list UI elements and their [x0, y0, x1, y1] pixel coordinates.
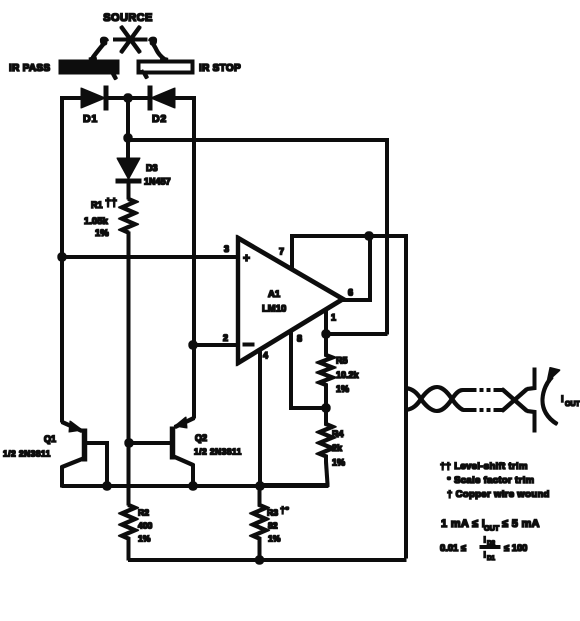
label IR PASS	[9, 63, 50, 74]
svg-text:I: I	[484, 535, 486, 545]
svg-text:82: 82	[268, 521, 278, 531]
resistor R2	[122, 505, 135, 560]
svg-text:R2: R2	[138, 508, 149, 518]
node B junction to feedback	[124, 134, 132, 142]
svg-text:1N457: 1N457	[144, 177, 171, 187]
svg-text:1/2 2N3811: 1/2 2N3811	[3, 449, 51, 459]
node pin1 R5	[322, 330, 330, 338]
svg-text:1%: 1%	[138, 534, 151, 544]
svg-text:OUT: OUT	[565, 401, 580, 408]
svg-text:0.01 ≤: 0.01 ≤	[440, 542, 466, 553]
resistor R5	[320, 334, 333, 408]
label R3	[267, 505, 289, 544]
pin 3 label	[224, 244, 229, 254]
svg-text:1%: 1%	[268, 534, 281, 544]
svg-text:† Copper wire wound: † Copper wire wound	[447, 489, 550, 500]
label D2	[152, 113, 167, 125]
wire D2 to right rail	[175, 98, 194, 418]
output port upper	[527, 368, 535, 389]
label R1 daggers	[84, 197, 117, 239]
svg-text:1: 1	[331, 313, 336, 323]
transistor Q1	[62, 421, 107, 487]
twisted pair dashed section	[463, 390, 502, 410]
node output-supply junction	[365, 232, 373, 240]
light ray to IR STOP	[150, 39, 168, 60]
svg-text:1%: 1%	[336, 384, 349, 394]
label IR STOP	[199, 63, 241, 74]
note copper wire wound	[447, 489, 550, 500]
note ratio range	[440, 535, 527, 563]
photodiode D2	[150, 86, 175, 110]
photodiode D1	[81, 86, 106, 110]
svg-text:LM10: LM10	[262, 304, 286, 315]
wire inverting input	[193, 344, 238, 347]
node Q2 collector rail	[189, 482, 197, 490]
pin 7 wire	[292, 236, 406, 558]
wire left rail top to D1	[62, 98, 81, 258]
svg-text:1 mA ≤ I: 1 mA ≤ I	[441, 518, 485, 530]
svg-text:+: +	[243, 251, 250, 265]
twisted pair end crossing	[502, 389, 527, 411]
pin 1 wire	[325, 309, 328, 334]
Iout arrow	[542, 368, 560, 425]
light tick on D1	[111, 70, 116, 79]
label Q2	[194, 433, 242, 457]
svg-text:1%: 1%	[95, 228, 109, 239]
svg-text:D2: D2	[152, 113, 167, 125]
output port lower	[527, 411, 535, 432]
pin 2 label	[223, 333, 228, 343]
light ray to IR PASS	[90, 39, 108, 60]
node left rail to pin3	[58, 253, 66, 261]
svg-text:†°: †°	[280, 505, 289, 516]
svg-text:D1: D1	[487, 555, 495, 562]
wire D1 to node A	[106, 97, 150, 100]
svg-text:OUT: OUT	[484, 524, 500, 533]
lamp/source star	[114, 27, 148, 53]
label R4	[332, 429, 345, 468]
label R2	[138, 508, 153, 544]
svg-text:Q1: Q1	[44, 434, 56, 444]
node Q2 base R1 R2	[125, 439, 133, 447]
wire Q2 base node down through rail	[127, 443, 130, 505]
svg-text:3: 3	[224, 244, 229, 254]
light tick on D2	[142, 69, 147, 78]
svg-text:1/2 2N3811: 1/2 2N3811	[194, 447, 242, 457]
pin 4 label	[263, 351, 268, 361]
svg-text:R3: R3	[267, 508, 278, 518]
wire D3 to R1	[127, 181, 130, 199]
node R5 R4 pin8	[322, 404, 330, 412]
svg-text:10.2k: 10.2k	[336, 370, 360, 380]
return rail wire	[129, 559, 407, 562]
svg-text:2k: 2k	[332, 443, 343, 453]
twisted pair lower conductor	[406, 387, 463, 410]
pin 7 label	[279, 247, 284, 257]
svg-text:I: I	[561, 394, 564, 405]
wire node A down	[127, 98, 130, 158]
label SOURCE	[103, 12, 152, 24]
diode D3	[116, 158, 141, 181]
pin 8 wire	[291, 331, 326, 408]
label D3	[144, 163, 171, 187]
op-amp A1 LM10	[238, 238, 343, 363]
node pin2 junction	[189, 341, 197, 349]
svg-text:4: 4	[263, 351, 268, 361]
node Q1 base rail	[103, 482, 111, 490]
wire node B to top right corner	[128, 140, 387, 334]
svg-text:IR PASS: IR PASS	[9, 63, 50, 74]
svg-text:†† Level-shift trim: †† Level-shift trim	[440, 461, 528, 472]
svg-text:6: 6	[348, 288, 353, 298]
svg-text:≤ 5 mA: ≤ 5 mA	[502, 518, 540, 530]
IR STOP filter	[139, 62, 192, 72]
emitter rail wire	[62, 485, 328, 488]
label Iout	[561, 394, 580, 408]
note current range	[441, 518, 540, 533]
svg-text:2: 2	[223, 333, 228, 343]
svg-text:Q2: Q2	[195, 433, 207, 443]
wire pin1 to feedback corner	[326, 333, 387, 336]
svg-text:R1: R1	[91, 200, 103, 210]
svg-text:D1: D1	[83, 113, 98, 125]
svg-text:R5: R5	[336, 356, 348, 366]
svg-text:IR STOP: IR STOP	[199, 63, 241, 74]
resistor R1	[122, 199, 135, 233]
svg-text:A1: A1	[268, 289, 281, 300]
wire noninverting input	[62, 256, 238, 259]
svg-text:D3: D3	[146, 163, 158, 173]
pin 6 label	[348, 288, 353, 298]
svg-text:8: 8	[297, 334, 302, 344]
svg-text:7: 7	[279, 247, 284, 257]
IR PASS filter	[59, 60, 119, 74]
svg-text:I: I	[484, 550, 486, 560]
svg-text:SOURCE: SOURCE	[103, 12, 152, 24]
pin 1 label	[331, 313, 336, 323]
note scale factor trim	[447, 475, 534, 486]
resistor R4	[320, 408, 333, 462]
label Q1	[3, 434, 56, 459]
label D1	[83, 113, 98, 125]
node R3 return rail	[255, 556, 263, 564]
svg-text:††: ††	[105, 197, 117, 209]
svg-text:1%: 1%	[332, 458, 345, 468]
svg-text:1.05k: 1.05k	[84, 216, 108, 227]
svg-text:R4: R4	[332, 429, 344, 439]
twisted pair upper conductor	[406, 388, 463, 411]
svg-text:400: 400	[138, 521, 153, 531]
pin 4 wire	[259, 350, 262, 486]
label R5	[336, 356, 360, 395]
transistor Q2	[129, 417, 194, 487]
node A junction D1-D2	[124, 94, 132, 102]
node pin4 R3 rail	[256, 482, 264, 490]
resistor R3	[253, 486, 266, 561]
svg-text:° Scale factor trim: ° Scale factor trim	[447, 475, 534, 486]
wire left rail down to Q1	[61, 257, 64, 422]
wire R1 bottom to Q2 base node	[127, 232, 130, 444]
svg-text:≤ 100: ≤ 100	[504, 542, 527, 553]
pin 8 label	[297, 334, 302, 344]
note level-shift trim	[440, 461, 528, 472]
wire R4 bottom to rail	[260, 462, 328, 485]
pin 6 output wire	[343, 236, 370, 300]
